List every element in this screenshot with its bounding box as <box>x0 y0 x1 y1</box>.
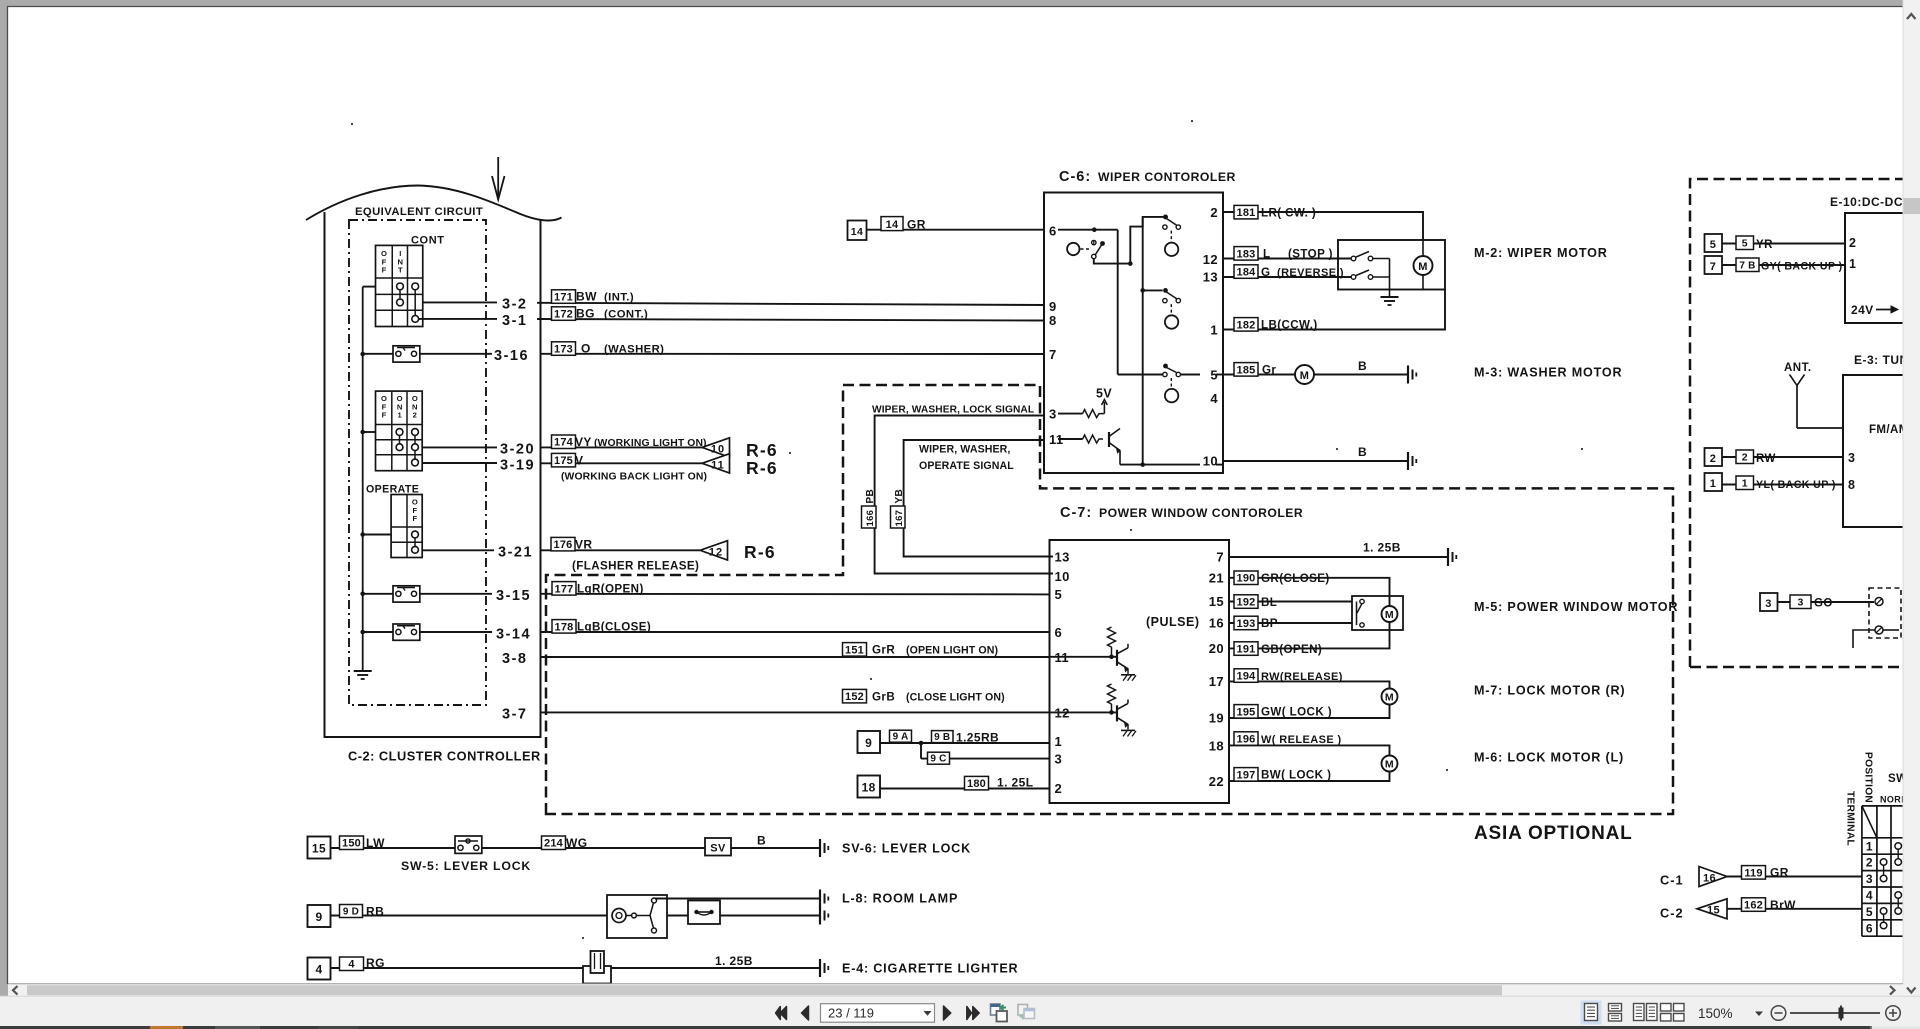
svg-text:1.25RB: 1.25RB <box>956 731 999 745</box>
svg-text:3: 3 <box>1848 451 1855 465</box>
svg-text:(PULSE): (PULSE) <box>1146 615 1200 629</box>
svg-text:24V: 24V <box>1851 303 1874 317</box>
svg-text:11: 11 <box>711 459 725 471</box>
svg-text:GW( LOCK ): GW( LOCK ) <box>1261 706 1332 719</box>
svg-text:BW: BW <box>576 290 597 304</box>
svg-text:194: 194 <box>1237 671 1257 683</box>
svg-text:193: 193 <box>1237 618 1256 630</box>
svg-text:VY: VY <box>575 435 592 449</box>
svg-text:2: 2 <box>1849 236 1856 250</box>
svg-text:10: 10 <box>1055 569 1070 584</box>
svg-text:C-6:: C-6: <box>1059 169 1091 185</box>
svg-text:C-2: CLUSTER CONTROLLER: C-2: CLUSTER CONTROLLER <box>348 749 541 764</box>
svg-text:3-21: 3-21 <box>498 545 533 561</box>
svg-text:E-10:DC-DC: E-10:DC-DC <box>1830 195 1903 209</box>
svg-text:7 B: 7 B <box>1739 261 1755 272</box>
svg-text:ASIA OPTIONAL: ASIA OPTIONAL <box>1474 823 1633 844</box>
svg-text:21: 21 <box>1209 570 1224 585</box>
svg-text:6: 6 <box>1049 224 1057 239</box>
svg-text:F: F <box>412 514 417 523</box>
svg-text:LR( CW. ): LR( CW. ) <box>1261 206 1316 219</box>
svg-text:9: 9 <box>1049 299 1057 314</box>
svg-text:14: 14 <box>851 226 863 238</box>
svg-text:20: 20 <box>1209 641 1224 656</box>
svg-text:8: 8 <box>1848 478 1855 492</box>
svg-text:3: 3 <box>1765 598 1772 610</box>
svg-text:WG: WG <box>566 836 587 850</box>
svg-text:12: 12 <box>1203 252 1218 267</box>
svg-text:9 C: 9 C <box>930 753 946 764</box>
svg-text:2: 2 <box>1210 205 1218 220</box>
svg-text:174: 174 <box>554 437 574 449</box>
svg-text:3: 3 <box>1866 872 1873 886</box>
svg-text:M: M <box>1418 261 1428 273</box>
svg-text:4: 4 <box>1866 889 1873 903</box>
svg-text:9 D: 9 D <box>343 907 359 918</box>
svg-text:GR(CLOSE): GR(CLOSE) <box>1261 572 1330 585</box>
svg-text:14: 14 <box>886 219 899 231</box>
svg-text:4: 4 <box>1210 391 1218 406</box>
svg-text:3-1: 3-1 <box>502 313 527 329</box>
svg-text:173: 173 <box>554 344 573 356</box>
svg-text:3: 3 <box>1797 597 1803 609</box>
svg-text:(WORKING BACK LIGHT ON): (WORKING BACK LIGHT ON) <box>561 472 707 483</box>
svg-text:183: 183 <box>1237 248 1256 260</box>
svg-text:R-6: R-6 <box>746 440 778 460</box>
svg-text:1: 1 <box>1055 734 1063 749</box>
svg-text:(OPEN LIGHT ON): (OPEN LIGHT ON) <box>906 645 998 657</box>
svg-text:151: 151 <box>845 644 864 656</box>
svg-text:150%: 150% <box>1698 1006 1733 1021</box>
svg-text:2: 2 <box>1866 856 1873 870</box>
svg-text:L: L <box>1263 248 1270 261</box>
svg-text:M: M <box>1300 370 1310 382</box>
svg-text:7: 7 <box>1216 550 1224 565</box>
svg-text:9: 9 <box>865 736 872 750</box>
svg-text:M: M <box>1385 759 1394 771</box>
svg-text:190: 190 <box>1237 573 1256 585</box>
svg-text:1. 25B: 1. 25B <box>715 954 753 968</box>
svg-text:M-7: LOCK MOTOR (R): M-7: LOCK MOTOR (R) <box>1474 684 1625 698</box>
svg-text:M: M <box>1385 609 1394 621</box>
svg-text:171: 171 <box>554 292 573 304</box>
svg-text:Gr: Gr <box>1262 364 1276 377</box>
svg-text:3-19: 3-19 <box>500 457 535 473</box>
svg-text:17: 17 <box>1209 674 1224 689</box>
svg-text:3-15: 3-15 <box>496 588 531 604</box>
svg-text:(WORKING LIGHT ON): (WORKING LIGHT ON) <box>594 438 707 449</box>
svg-text:3: 3 <box>1049 407 1057 422</box>
svg-text:RW(RELEASE): RW(RELEASE) <box>1261 671 1343 683</box>
svg-text:OPERATE SIGNAL: OPERATE SIGNAL <box>919 460 1014 472</box>
svg-text:B: B <box>1358 359 1367 373</box>
svg-text:184: 184 <box>1237 267 1257 279</box>
svg-text:WIPER, WASHER, LOCK SIGNAL: WIPER, WASHER, LOCK SIGNAL <box>872 405 1034 416</box>
svg-text:BL: BL <box>1261 596 1277 609</box>
svg-text:5: 5 <box>1742 238 1748 250</box>
svg-text:M-3: WASHER MOTOR: M-3: WASHER MOTOR <box>1474 365 1622 379</box>
svg-text:175: 175 <box>554 455 573 467</box>
svg-text:(INT.): (INT.) <box>604 292 634 304</box>
svg-text:GY( BACK UP ): GY( BACK UP ) <box>1761 260 1843 272</box>
svg-text:13: 13 <box>1055 550 1070 565</box>
svg-text:23 / 119: 23 / 119 <box>828 1006 874 1021</box>
svg-text:13: 13 <box>1203 270 1218 285</box>
svg-text:R-6: R-6 <box>746 458 778 478</box>
svg-text:GrB: GrB <box>872 690 895 703</box>
svg-text:GR: GR <box>1770 866 1789 880</box>
svg-text:RG: RG <box>366 956 385 970</box>
svg-text:5: 5 <box>1866 905 1873 919</box>
svg-text:W( RELEASE ): W( RELEASE ) <box>1261 734 1342 746</box>
svg-text:3-20: 3-20 <box>500 442 535 458</box>
svg-text:1: 1 <box>1849 257 1856 271</box>
svg-text:15: 15 <box>1209 594 1224 609</box>
svg-text:L-8: ROOM LAMP: L-8: ROOM LAMP <box>842 892 958 906</box>
svg-text:182: 182 <box>1237 319 1256 331</box>
svg-text:ANT.: ANT. <box>1784 362 1812 374</box>
svg-text:M-5: POWER WINDOW MOTOR: M-5: POWER WINDOW MOTOR <box>1474 600 1678 614</box>
svg-text:3-8: 3-8 <box>502 651 527 667</box>
svg-text:WIPER, WASHER,: WIPER, WASHER, <box>919 444 1010 456</box>
svg-text:G: G <box>1261 266 1270 279</box>
svg-text:162: 162 <box>1744 900 1763 912</box>
svg-text:LW: LW <box>366 836 385 850</box>
svg-text:9 B: 9 B <box>934 732 950 743</box>
svg-text:R-6: R-6 <box>744 542 776 562</box>
svg-text:LB(CCW.): LB(CCW.) <box>1261 319 1318 332</box>
svg-text:YL( BACK UP ): YL( BACK UP ) <box>1756 479 1836 491</box>
svg-text:4: 4 <box>348 959 355 971</box>
svg-text:10: 10 <box>1203 454 1218 469</box>
svg-text:5: 5 <box>1710 239 1717 251</box>
svg-text:4: 4 <box>315 963 322 977</box>
svg-text:(WASHER): (WASHER) <box>604 344 664 356</box>
svg-text:LgR(OPEN): LgR(OPEN) <box>577 583 644 596</box>
svg-text:BG: BG <box>576 307 595 321</box>
svg-text:YR: YR <box>1756 239 1773 251</box>
svg-text:POWER WINDOW CONTOROLER: POWER WINDOW CONTOROLER <box>1099 506 1303 520</box>
svg-text:B: B <box>1358 445 1367 459</box>
svg-text:196: 196 <box>1237 734 1256 746</box>
svg-text:GR: GR <box>907 218 926 232</box>
svg-text:185: 185 <box>1237 364 1256 376</box>
svg-text:BP: BP <box>1261 617 1278 630</box>
svg-text:VR: VR <box>575 537 592 551</box>
svg-text:C-2: C-2 <box>1660 906 1684 921</box>
svg-text:15: 15 <box>312 842 326 856</box>
svg-text:15: 15 <box>1707 905 1720 917</box>
svg-text:YB: YB <box>894 489 905 504</box>
svg-text:8: 8 <box>1049 313 1057 328</box>
svg-text:(REVERSE ): (REVERSE ) <box>1277 267 1344 279</box>
svg-text:F: F <box>382 411 387 420</box>
svg-text:B: B <box>757 834 766 848</box>
svg-text:19: 19 <box>1209 711 1224 726</box>
svg-text:1. 25B: 1. 25B <box>1363 541 1401 555</box>
svg-text:2: 2 <box>413 411 417 420</box>
svg-text:181: 181 <box>1237 207 1256 219</box>
svg-text:O: O <box>581 342 591 356</box>
svg-text:119: 119 <box>1744 867 1762 879</box>
svg-text:1. 25L: 1. 25L <box>997 775 1033 789</box>
svg-text:GrR: GrR <box>872 644 895 657</box>
svg-text:22: 22 <box>1209 774 1224 789</box>
svg-text:M: M <box>1385 692 1394 704</box>
svg-text:18: 18 <box>1209 738 1224 753</box>
svg-text:3: 3 <box>1055 751 1063 766</box>
svg-text:GB(OPEN): GB(OPEN) <box>1261 643 1322 656</box>
svg-text:166: 166 <box>865 510 876 527</box>
svg-text:3-16: 3-16 <box>494 348 529 364</box>
svg-text:BW( LOCK ): BW( LOCK ) <box>1261 769 1331 782</box>
svg-text:TERMINAL: TERMINAL <box>1845 791 1856 846</box>
svg-text:180: 180 <box>967 778 986 790</box>
svg-text:E-4: CIGARETTE LIGHTER: E-4: CIGARETTE LIGHTER <box>842 962 1018 976</box>
svg-text:1: 1 <box>1710 478 1717 490</box>
svg-text:10: 10 <box>711 443 725 455</box>
svg-text:SV: SV <box>710 842 726 854</box>
svg-text:(CLOSE LIGHT ON): (CLOSE LIGHT ON) <box>906 691 1005 703</box>
svg-text:F: F <box>382 266 387 275</box>
svg-text:C-1: C-1 <box>1660 873 1684 888</box>
svg-text:BrW: BrW <box>1770 898 1796 912</box>
svg-text:6: 6 <box>1866 921 1873 935</box>
svg-text:16: 16 <box>1209 616 1224 631</box>
svg-text:9: 9 <box>315 910 322 924</box>
svg-text:(STOP ): (STOP ) <box>1288 248 1333 261</box>
svg-text:197: 197 <box>1237 769 1256 781</box>
svg-text:176: 176 <box>554 539 573 551</box>
svg-text:3-2: 3-2 <box>502 297 527 313</box>
svg-text:(CONT.): (CONT.) <box>604 309 648 321</box>
svg-text:150: 150 <box>342 838 361 850</box>
svg-text:2: 2 <box>1710 453 1717 465</box>
svg-text:T: T <box>398 266 403 275</box>
svg-text:192: 192 <box>1237 597 1256 609</box>
svg-text:18: 18 <box>862 781 876 795</box>
svg-text:167: 167 <box>894 510 905 527</box>
svg-text:2: 2 <box>1055 781 1063 796</box>
svg-text:WIPER CONTOROLER: WIPER CONTOROLER <box>1098 170 1236 184</box>
svg-text:(FLASHER RELEASE): (FLASHER RELEASE) <box>572 560 699 573</box>
svg-text:1: 1 <box>1210 323 1218 338</box>
svg-text:152: 152 <box>845 691 864 703</box>
svg-text:CONT: CONT <box>411 235 445 247</box>
svg-text:POSITION: POSITION <box>1863 752 1874 803</box>
svg-text:178: 178 <box>555 621 574 633</box>
svg-text:1: 1 <box>1742 478 1748 490</box>
svg-text:7: 7 <box>1710 261 1717 273</box>
svg-text:RW: RW <box>1756 453 1776 465</box>
svg-text:1: 1 <box>1866 839 1873 853</box>
svg-text:PB: PB <box>865 489 876 504</box>
svg-text:SV-6: LEVER LOCK: SV-6: LEVER LOCK <box>842 842 971 856</box>
svg-text:214: 214 <box>544 838 564 850</box>
svg-text:2: 2 <box>1742 452 1748 464</box>
svg-text:12: 12 <box>709 546 723 558</box>
svg-text:5: 5 <box>1055 587 1063 602</box>
svg-text:GO: GO <box>1814 598 1833 610</box>
svg-text:7: 7 <box>1049 347 1057 362</box>
svg-text:3-7: 3-7 <box>502 706 527 722</box>
svg-text:EQUIVALENT CIRCUIT: EQUIVALENT CIRCUIT <box>355 206 483 218</box>
svg-text:177: 177 <box>555 583 574 595</box>
svg-text:M-2: WIPER MOTOR: M-2: WIPER MOTOR <box>1474 246 1608 260</box>
svg-text:V: V <box>575 453 583 467</box>
svg-text:LgB(CLOSE): LgB(CLOSE) <box>577 621 651 634</box>
svg-text:9 A: 9 A <box>893 731 909 742</box>
svg-text:16: 16 <box>1703 872 1716 884</box>
svg-text:C-7:: C-7: <box>1060 505 1092 521</box>
svg-text:M-6: LOCK MOTOR (L): M-6: LOCK MOTOR (L) <box>1474 751 1624 765</box>
svg-text:172: 172 <box>554 309 573 321</box>
svg-text:6: 6 <box>1055 625 1063 640</box>
svg-text:RB: RB <box>366 904 384 918</box>
svg-text:3-14: 3-14 <box>496 626 531 642</box>
svg-text:195: 195 <box>1237 706 1256 718</box>
svg-text:191: 191 <box>1237 644 1256 656</box>
svg-text:SW-5: LEVER LOCK: SW-5: LEVER LOCK <box>401 859 531 873</box>
